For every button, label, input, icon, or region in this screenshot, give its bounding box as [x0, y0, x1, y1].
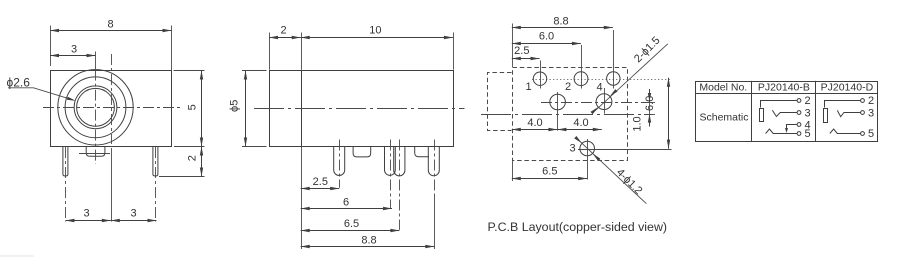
svg-text:2: 2 — [868, 95, 874, 107]
hole3 row extension — [578, 149, 672, 151]
dim 5 extension bottom — [174, 146, 205, 148]
svg-text:PJ20140-B: PJ20140-B — [758, 81, 810, 93]
svg-text:3: 3 — [804, 108, 810, 120]
hole pin3 — [580, 141, 595, 156]
svg-text:5: 5 — [868, 128, 874, 140]
svg-text:5: 5 — [186, 104, 198, 110]
svg-text:2.5: 2.5 — [313, 176, 328, 188]
svg-text:6.5: 6.5 — [542, 165, 557, 177]
right leg centerline — [155, 147, 157, 222]
left leg — [63, 146, 68, 176]
svg-text:4.0: 4.0 — [573, 117, 588, 129]
svg-text:3: 3 — [868, 108, 874, 120]
dim 2.5 line — [301, 188, 340, 190]
front view body rectangle — [51, 71, 172, 147]
svg-text:3: 3 — [83, 208, 89, 220]
dim 8.8 line — [301, 246, 435, 248]
svg-text:2.5: 2.5 — [514, 45, 529, 57]
table outer border — [696, 82, 878, 142]
dim 8 line — [50, 30, 172, 32]
hole mid-right vertical crosshair — [604, 88, 606, 114]
pcb main centerline — [481, 114, 652, 116]
hole chamfer circle — [74, 86, 117, 129]
schematic B pin2 terminal — [797, 99, 801, 103]
svg-text:PJ20140-D: PJ20140-D — [821, 81, 874, 93]
mid extension line — [111, 148, 113, 222]
schematic D pin2 wire — [825, 101, 861, 108]
leg pin 2 — [385, 146, 396, 175]
right leg — [153, 146, 158, 176]
schematic D tip spring — [837, 110, 860, 116]
schematic B pin2 wire — [761, 101, 798, 108]
schematic B sleeve contact — [760, 109, 764, 122]
bottom dim 3 right line — [111, 220, 157, 222]
dim 3 line — [50, 55, 96, 57]
top dim extension right — [453, 33, 455, 70]
table header separator — [695, 93, 877, 95]
pcb left edge lower extension — [512, 160, 514, 181]
dim 10 line — [301, 37, 453, 39]
dim 5 line — [201, 71, 203, 147]
hole pin2 vertical crosshair / 6.0 ext — [581, 45, 583, 89]
horizontal centerline — [43, 107, 182, 109]
side centerline — [254, 108, 465, 110]
schematic D ring spring — [830, 129, 861, 134]
flange line — [301, 70, 303, 146]
schematic B pin5 terminal — [797, 132, 801, 136]
schematic B pin4 terminal — [797, 123, 801, 127]
leg pin 1 — [334, 146, 345, 176]
svg-text:Schematic: Schematic — [699, 112, 748, 124]
svg-text:2: 2 — [187, 155, 199, 161]
schematic B pin4 wire with switch arrow — [787, 125, 798, 129]
dim 4.0 right line — [557, 129, 601, 131]
leader 2-phi1.5 line — [592, 44, 667, 113]
svg-text:5: 5 — [804, 128, 810, 140]
svg-text:8.8: 8.8 — [361, 234, 376, 246]
bottom dim 3 left line — [65, 220, 110, 222]
svg-text:P.C.B Layout(copper-sided view: P.C.B Layout(copper-sided view) — [488, 220, 668, 234]
left leg centerline — [65, 147, 67, 222]
dim 5 extension top — [174, 70, 205, 72]
top dim extension left — [269, 33, 271, 70]
pcb body outline dashed — [513, 68, 628, 161]
svg-text:6: 6 — [343, 196, 349, 208]
schematic B pin3 terminal — [797, 111, 801, 115]
hole pin4 vertical crosshair / 8.8 ext — [613, 30, 615, 89]
svg-text:ϕ5: ϕ5 — [228, 100, 240, 112]
dim 8.8 pcb left common extension — [512, 24, 514, 68]
table column line 1 — [751, 81, 753, 141]
dim 8.8 pcb line — [512, 27, 613, 29]
table column line 2 — [815, 81, 817, 141]
phi5 extension bottom — [242, 146, 267, 148]
svg-text:Model No.: Model No. — [699, 81, 747, 93]
hole mid-left vertical crosshair — [557, 92, 559, 131]
dim 2 top line — [269, 37, 301, 39]
leg 3 centerline — [399, 140, 401, 230]
svg-text:3: 3 — [569, 143, 575, 155]
body mid vertical centerline — [111, 54, 113, 144]
schematic B tip spring — [772, 110, 797, 116]
barrel flange circle — [65, 77, 126, 138]
svg-text:4.0: 4.0 — [527, 117, 542, 129]
side view body rectangle — [270, 71, 454, 147]
svg-text:ϕ2.6: ϕ2.6 — [7, 75, 31, 89]
mid hole row centerline — [541, 102, 652, 104]
hole pin1 vertical crosshair / 2.5 ext — [540, 61, 542, 89]
FRONT VIEW — [7, 19, 205, 222]
schematic D pin3 terminal — [861, 111, 865, 115]
svg-text:6.5: 6.5 — [344, 218, 359, 230]
top hole row dotted line — [532, 79, 672, 81]
schematic D pin2 terminal — [861, 99, 865, 103]
hole mid left — [550, 94, 566, 110]
dim 8 extension right — [171, 26, 173, 71]
leg pin 3 — [394, 146, 405, 176]
dim 1.0 vertical line with outside arrows — [649, 102, 651, 114]
svg-text:8: 8 — [107, 19, 113, 31]
PCB LAYOUT — [481, 15, 672, 233]
dim 6.0 pcb line — [512, 43, 581, 45]
bottom nub — [86, 146, 105, 156]
dim 2.5 pcb line — [512, 58, 540, 60]
barrel outer circle — [58, 70, 133, 145]
hole circle phi2.6 — [77, 88, 115, 126]
dim 8 extension left — [50, 26, 52, 67]
vertical centerline of barrel — [95, 52, 97, 70]
dim 6.5 pcb line — [512, 178, 587, 180]
plastic stub — [415, 146, 429, 157]
svg-text:10: 10 — [369, 25, 381, 37]
svg-text:8.8: 8.8 — [553, 15, 568, 27]
TABLE — [695, 81, 877, 142]
svg-text:3: 3 — [71, 43, 77, 55]
nub crosshair — [79, 153, 110, 155]
svg-text:3: 3 — [130, 208, 136, 220]
dim 2 extension bottom — [159, 176, 205, 178]
phi5 dim line — [245, 71, 247, 147]
dim 8.8 right extension — [434, 196, 436, 249]
leg 2 centerline — [390, 140, 392, 209]
plastic nub — [353, 146, 371, 157]
dim 6.0 vertical line — [668, 78, 670, 149]
svg-text:1.0: 1.0 — [632, 116, 644, 131]
hole mid right — [596, 94, 612, 110]
svg-text:2: 2 — [280, 25, 286, 37]
schematic D pin5 terminal — [861, 132, 865, 136]
svg-text:2: 2 — [565, 81, 571, 93]
leader 4-phi1.2 line — [577, 138, 647, 203]
flange extension up and down — [301, 33, 303, 70]
svg-text:4: 4 — [596, 81, 602, 93]
schematic B ring spring — [766, 129, 798, 134]
hole pin4 top — [607, 72, 620, 85]
dim 6.5 line — [301, 230, 400, 232]
dim 2 line — [201, 147, 203, 177]
hole pin3 vertical crosshair / 6.5 ext — [587, 139, 589, 180]
leg 1 centerline — [339, 140, 341, 188]
dim 4.0 left line — [512, 129, 558, 131]
svg-text:6.0: 6.0 — [539, 31, 554, 43]
svg-text:2: 2 — [804, 95, 810, 107]
phi2.6 leader — [8, 88, 73, 100]
phi5 extension top — [242, 70, 267, 72]
SIDE VIEW — [228, 25, 464, 249]
leg 4 centerline — [434, 140, 436, 197]
leg pin 4 — [428, 146, 439, 176]
pcb barrel protrusion dashed — [488, 73, 512, 131]
svg-text:1: 1 — [525, 81, 531, 93]
schematic D sleeve contact — [824, 109, 828, 123]
hole pin1 — [533, 72, 546, 85]
hole pin2 — [574, 72, 588, 86]
faint scan artifact bottom-left — [0, 255, 34, 257]
dim 6 line — [301, 208, 392, 210]
